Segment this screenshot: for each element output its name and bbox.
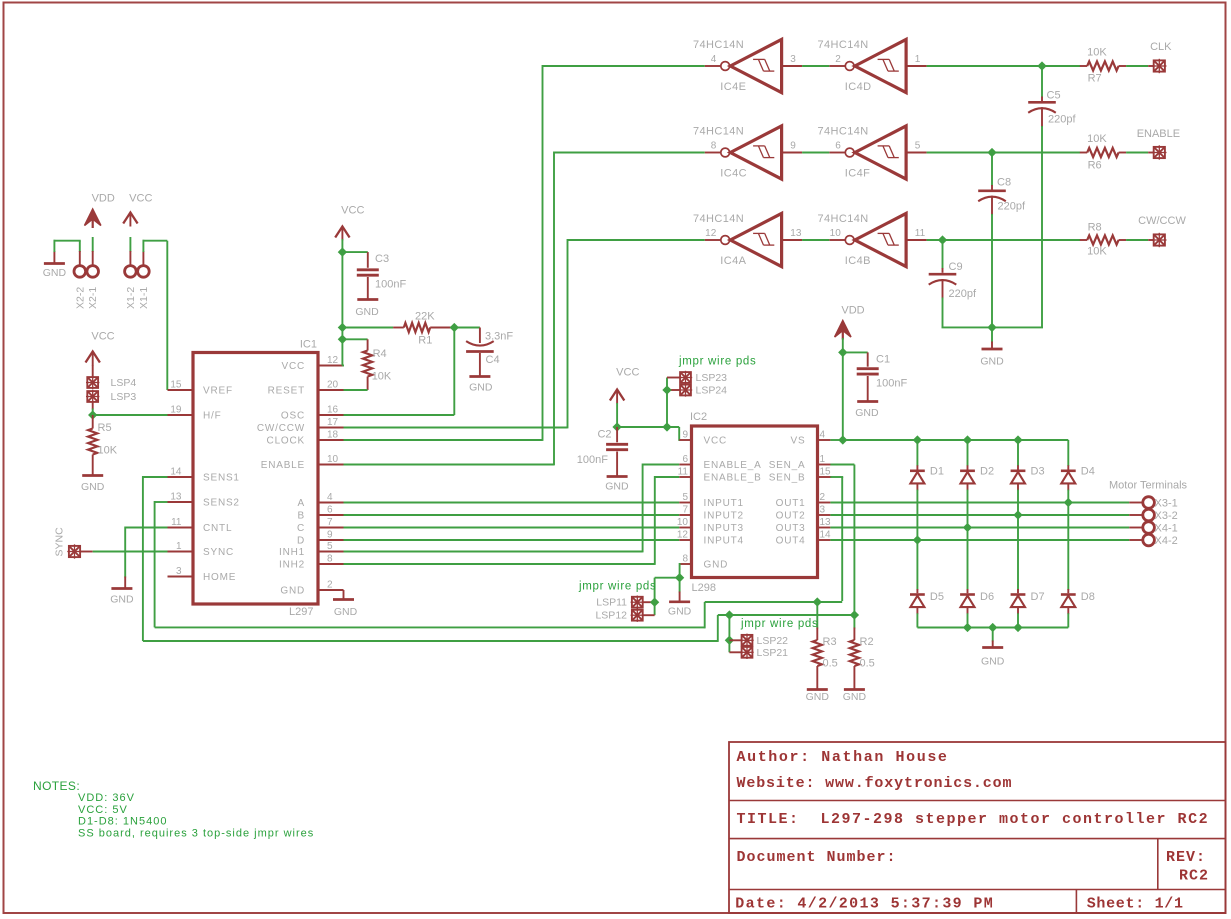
wire LSP22/21 branch (728, 615, 730, 652)
svg-text:Author: Nathan House: Author: Nathan House (737, 749, 949, 766)
svg-text:SYNC: SYNC (54, 527, 66, 557)
junction rail D6 (963, 623, 972, 632)
svg-text:C: C (297, 523, 305, 534)
terminal pad X4-1 (1143, 522, 1178, 535)
svg-text:19: 19 (170, 405, 182, 416)
inverter IC4F (74HC14N) (818, 126, 927, 180)
svg-text:16: 16 (327, 405, 339, 416)
terminal pad X4-2 (1143, 534, 1178, 547)
svg-text:3: 3 (176, 566, 182, 577)
svg-text:1: 1 (915, 54, 921, 65)
svg-text:10K: 10K (1087, 47, 1107, 59)
junction VS/D3 (1013, 435, 1022, 444)
inverter IC4B (74HC14N) (818, 213, 927, 267)
junction VCC/R1 (338, 323, 347, 332)
junction CWCCW/C9 (938, 235, 947, 244)
capacitor C8 (978, 153, 1026, 328)
IC2 left pin names (677, 430, 762, 571)
jumper pad LSP11 (596, 596, 644, 609)
svg-text:IC4F: IC4F (845, 168, 870, 180)
svg-text:12: 12 (677, 530, 689, 541)
ground symbol C4 (469, 377, 493, 394)
svg-text:3: 3 (820, 505, 826, 516)
junction SENS1/R2 (850, 610, 859, 619)
svg-text:CLK: CLK (1150, 41, 1172, 53)
svg-text:X3-1: X3-1 (1155, 498, 1178, 510)
wire OSC to R1 (344, 328, 455, 416)
svg-text:2: 2 (327, 580, 333, 591)
svg-text:4: 4 (820, 430, 826, 441)
svg-text:SENS1: SENS1 (203, 473, 240, 484)
svg-text:CW/CCW: CW/CCW (257, 423, 305, 434)
inverter IC4A (74HC14N) (693, 213, 802, 267)
diode D7 (1011, 515, 1045, 628)
wire IC4E-IC4D (802, 65, 829, 67)
svg-text:D5: D5 (930, 591, 944, 603)
resistor R7 (1080, 47, 1154, 85)
junction VCC/C3 (338, 247, 347, 256)
wire VCC to IC2 pin9 (617, 427, 691, 441)
resistor R6 (1080, 133, 1154, 172)
svg-text:R7: R7 (1088, 73, 1102, 85)
junction VS/D2 (963, 435, 972, 444)
svg-text:L298: L298 (692, 582, 716, 594)
connector pad X2-2 (74, 266, 87, 309)
svg-text:C2: C2 (597, 429, 611, 441)
svg-text:20: 20 (327, 380, 339, 391)
svg-text:RC2: RC2 (1179, 868, 1209, 885)
svg-text:INPUT4: INPUT4 (704, 536, 744, 547)
svg-text:6: 6 (682, 454, 688, 465)
diode D5 (910, 540, 944, 628)
svg-text:ENABLE: ENABLE (261, 460, 305, 471)
pad SYNC (54, 527, 93, 559)
svg-text:220pf: 220pf (998, 201, 1026, 213)
svg-text:VREF: VREF (203, 386, 233, 397)
svg-text:SENS2: SENS2 (203, 498, 240, 509)
junction ENABLE/C8 (987, 148, 996, 157)
svg-text:R1: R1 (418, 335, 432, 347)
svg-text:LSP22: LSP22 (757, 635, 789, 647)
svg-text:REV:: REV: (1166, 849, 1206, 866)
wire OUT line X3-1 (830, 502, 1143, 504)
wire VS pin stub (818, 439, 844, 441)
wire CNTL to GND (125, 527, 168, 589)
resistor R2 (850, 615, 875, 689)
svg-text:HOME: HOME (203, 572, 236, 583)
terminal pad X3-2 (1143, 509, 1178, 522)
op-amp IC2 box (L298) (692, 426, 818, 578)
svg-text:Date: 4/2/2013 5:37:39 PM: Date: 4/2/2013 5:37:39 PM (735, 896, 994, 913)
diode D4 (1061, 440, 1095, 503)
junction SENS2/R3 (813, 597, 822, 606)
ground symbol IC2 (668, 578, 692, 618)
svg-text:10K: 10K (1087, 133, 1107, 145)
svg-text:VCC: VCC (341, 205, 364, 217)
svg-text:VS: VS (791, 436, 806, 447)
op-amp IC1 box (L297) (193, 353, 318, 605)
svg-text:TITLE: L297-298 stepper motor: TITLE: L297-298 stepper motor controller… (737, 811, 1210, 828)
svg-text:74HC14N: 74HC14N (693, 39, 744, 51)
svg-text:GND: GND (110, 594, 134, 606)
wire VDD to VS (842, 352, 844, 440)
svg-text:C8: C8 (997, 177, 1011, 189)
svg-text:8: 8 (327, 554, 333, 565)
junction rail D7 (1013, 623, 1022, 632)
junction CLK/C5 (1037, 61, 1046, 70)
svg-text:11: 11 (678, 467, 689, 478)
power symbol VDD (IC2) (835, 305, 865, 354)
wire ENABLE net (344, 152, 705, 466)
svg-text:9: 9 (682, 430, 688, 441)
svg-text:R2: R2 (860, 636, 874, 648)
title block box (729, 742, 1226, 913)
power symbol VCC (IC1) (335, 205, 364, 254)
resistor R4 (342, 339, 392, 390)
svg-text:14: 14 (820, 530, 832, 541)
svg-text:R6: R6 (1088, 160, 1102, 172)
svg-text:Document Number:: Document Number: (737, 849, 897, 866)
svg-text:VCC: VCC (91, 331, 114, 343)
junction D1 to motor line (913, 535, 922, 544)
svg-text:7: 7 (327, 517, 333, 528)
ground symbol R5 (81, 476, 105, 494)
svg-text:CNTL: CNTL (203, 523, 232, 534)
svg-text:GND: GND (855, 407, 879, 419)
svg-text:OUT2: OUT2 (776, 511, 806, 522)
svg-text:9: 9 (327, 530, 333, 541)
jumper pad LSP22 (740, 634, 788, 647)
diode D2 (960, 440, 994, 528)
svg-text:L297: L297 (289, 606, 313, 618)
svg-text:GND: GND (981, 656, 1005, 668)
wire diode ground rail (917, 627, 1068, 629)
wire D to INPUT4 (344, 539, 680, 541)
svg-text:6: 6 (835, 141, 841, 152)
label jmpr wire pds (LSP23/24) (678, 356, 756, 368)
pad CLK (1150, 41, 1172, 73)
svg-text:IC2: IC2 (690, 411, 707, 423)
wire B to INPUT2 (344, 514, 680, 516)
wire X2-2 to GND (54, 240, 81, 265)
resistor R1 (342, 311, 455, 347)
IC1 left pins (168, 380, 240, 584)
capacitor C1 (843, 352, 908, 401)
svg-text:C5: C5 (1047, 90, 1061, 102)
wire to LSP11/12 (643, 578, 680, 616)
svg-text:OUT4: OUT4 (776, 536, 806, 547)
svg-text:7: 7 (682, 505, 688, 516)
svg-text:2: 2 (835, 54, 841, 65)
wire IC4C-IC4F (802, 152, 829, 154)
svg-text:IC4E: IC4E (720, 81, 746, 93)
svg-text:4: 4 (327, 492, 333, 503)
svg-text:VDD: VDD (92, 193, 115, 205)
svg-text:VCC: 5V: VCC: 5V (78, 804, 128, 816)
inverter IC4C (74HC14N) (693, 126, 802, 180)
ground symbol R3 (806, 690, 830, 704)
label jmpr wire pds (LSP22/21) (740, 618, 818, 630)
svg-text:IC4D: IC4D (845, 81, 872, 93)
jumper pad LSP24 (679, 383, 727, 396)
junction rail GND stem (988, 623, 997, 632)
diode D3 (1011, 440, 1045, 515)
jumper pad LSP23 (679, 371, 727, 384)
wire cap ground rail (942, 326, 1044, 328)
svg-text:INPUT3: INPUT3 (704, 523, 744, 534)
inverter IC4E (74HC14N) (693, 39, 802, 93)
svg-text:B: B (298, 511, 305, 522)
diode D6 (960, 528, 994, 628)
svg-text:10K: 10K (98, 445, 118, 457)
wire OUT line X3-2 (830, 514, 1143, 516)
svg-text:18: 18 (327, 430, 339, 441)
pad CW/CCW (1138, 215, 1186, 247)
ground symbol diode rail (981, 628, 1005, 668)
svg-text:LSP11: LSP11 (596, 597, 627, 609)
svg-text:OUT1: OUT1 (776, 498, 806, 509)
wire ENABLE row out (927, 152, 1081, 154)
svg-text:IC4C: IC4C (720, 168, 747, 180)
junction VCC/R4 (338, 335, 347, 344)
svg-text:74HC14N: 74HC14N (693, 126, 744, 138)
node H/F junction (88, 410, 97, 419)
svg-text:74HC14N: 74HC14N (693, 213, 744, 225)
svg-text:OUT3: OUT3 (776, 523, 806, 534)
svg-text:10: 10 (830, 228, 842, 239)
svg-text:1: 1 (820, 454, 826, 465)
capacitor C3 (342, 252, 406, 299)
connector pad X2-1 (87, 266, 99, 309)
resistor R8 (1080, 222, 1154, 258)
wire LSP3 to H/F node (92, 402, 94, 415)
svg-text:100nF: 100nF (876, 378, 907, 390)
connector pad X1-2 (125, 266, 137, 309)
svg-text:74HC14N: 74HC14N (818, 213, 869, 225)
jumper pad LSP12 (595, 609, 644, 622)
wire CLK row out (927, 65, 1081, 67)
svg-text:LSP23: LSP23 (696, 372, 728, 384)
svg-text:R8: R8 (1088, 222, 1102, 234)
svg-text:13: 13 (170, 492, 182, 503)
svg-text:C9: C9 (949, 261, 963, 273)
terminal pad X3-1 (1143, 497, 1178, 510)
power symbol VCC (IC2) (610, 367, 640, 429)
svg-text:D2: D2 (980, 465, 994, 477)
diode D1 (910, 440, 944, 540)
IC1 right pins (257, 355, 344, 597)
svg-text:LSP21: LSP21 (757, 647, 789, 659)
svg-text:1: 1 (176, 541, 182, 552)
svg-text:GND: GND (81, 481, 105, 493)
junction D4 to motor line (1064, 498, 1073, 507)
svg-text:ENABLE_B: ENABLE_B (704, 473, 762, 484)
notes text (33, 779, 314, 839)
svg-text:GND: GND (843, 691, 867, 703)
svg-text:R3: R3 (823, 636, 837, 648)
capacitor C2 (577, 427, 628, 476)
ground symbol cap rail (980, 327, 1004, 367)
svg-text:GND: GND (806, 691, 830, 703)
svg-text:13: 13 (790, 228, 802, 239)
junction SENS1/LSP22 (725, 610, 734, 619)
svg-text:INH1: INH1 (279, 547, 305, 558)
svg-text:OSC: OSC (281, 411, 305, 422)
svg-text:X3-2: X3-2 (1155, 510, 1178, 522)
wire CW/CCW net (344, 239, 705, 428)
capacitor C4 (454, 328, 513, 376)
svg-text:8: 8 (711, 141, 717, 152)
svg-text:GND: GND (668, 606, 692, 618)
junction LSP11 (650, 598, 659, 607)
svg-text:IC4B: IC4B (845, 255, 871, 267)
svg-text:D3: D3 (1031, 465, 1045, 477)
svg-text:X4-2: X4-2 (1155, 535, 1178, 547)
wire C to INPUT3 (344, 527, 680, 529)
svg-text:6: 6 (327, 505, 333, 516)
svg-text:GND: GND (355, 306, 379, 318)
svg-text:0.5: 0.5 (860, 658, 875, 670)
svg-text:LSP4: LSP4 (111, 377, 137, 389)
ground symbol C2 (605, 477, 629, 493)
svg-text:X2-1: X2-1 (87, 287, 99, 309)
capacitor C9 (929, 240, 977, 327)
wire SENS2 net (155, 501, 843, 628)
ground symbol CNTL (110, 589, 134, 606)
inverter IC4D (74HC14N) (818, 39, 927, 93)
wire CW/CCW row out (927, 239, 1081, 241)
svg-text:GND: GND (704, 560, 729, 571)
svg-text:GND: GND (605, 481, 629, 493)
svg-text:0.5: 0.5 (823, 658, 838, 670)
svg-text:12: 12 (327, 355, 339, 366)
wire VS rail (843, 439, 1069, 441)
wire SENS1 net (143, 476, 855, 642)
label IC1 (300, 339, 317, 351)
wire INH1 to ENABLE_A (344, 464, 680, 553)
svg-text:VCC: VCC (704, 436, 728, 447)
svg-text:220pf: 220pf (1048, 114, 1076, 126)
svg-text:D8: D8 (1081, 591, 1095, 603)
ground symbol R2 (843, 690, 867, 704)
svg-text:14: 14 (170, 467, 182, 478)
svg-text:ENABLE_A: ENABLE_A (704, 460, 762, 471)
svg-text:D6: D6 (980, 591, 994, 603)
svg-text:jmpr wire pds: jmpr wire pds (740, 618, 818, 630)
ground symbol C1 (855, 402, 879, 420)
wire OUT line X4-2 (830, 539, 1143, 541)
wire VCC rail (342, 252, 344, 365)
junction VDD/C1 (838, 348, 847, 357)
junction D2 to motor line (963, 523, 972, 532)
svg-text:GND: GND (43, 267, 67, 279)
junction VDD/VS (838, 435, 847, 444)
svg-text:15: 15 (170, 380, 182, 391)
svg-text:ENABLE: ENABLE (1137, 128, 1180, 140)
junction VS/D1 (913, 435, 922, 444)
pad ENABLE (1137, 128, 1180, 160)
svg-text:GND: GND (469, 382, 493, 394)
jumper pad LSP3 (86, 390, 136, 403)
svg-text:jmpr wire pds: jmpr wire pds (578, 581, 656, 593)
svg-text:5: 5 (682, 492, 688, 503)
svg-text:74HC14N: 74HC14N (818, 126, 869, 138)
power symbol VDD (X2-1) (85, 193, 115, 266)
svg-text:INH2: INH2 (279, 560, 305, 571)
svg-text:X2-2: X2-2 (75, 287, 87, 309)
svg-text:GND: GND (334, 606, 358, 618)
svg-text:3: 3 (790, 54, 796, 65)
svg-text:D7: D7 (1031, 591, 1045, 603)
label IC2 (690, 411, 707, 423)
wire X1-1 to VREF (143, 240, 168, 390)
svg-text:11: 11 (171, 517, 182, 528)
svg-text:22K: 22K (415, 311, 435, 323)
svg-text:VDD: 36V: VDD: 36V (78, 792, 135, 804)
label L297 (289, 606, 313, 618)
wire LSP23/24 branch (667, 378, 680, 428)
svg-text:10: 10 (327, 454, 339, 465)
svg-text:Sheet: 1/1: Sheet: 1/1 (1087, 896, 1184, 913)
svg-text:74HC14N: 74HC14N (818, 39, 869, 51)
wire OUT line X4-1 (830, 527, 1143, 529)
svg-text:10: 10 (677, 517, 689, 528)
resistor R3 (813, 602, 838, 689)
svg-text:CLOCK: CLOCK (267, 436, 305, 447)
svg-text:5: 5 (915, 141, 921, 152)
svg-text:C3: C3 (375, 253, 389, 265)
svg-text:CW/CCW: CW/CCW (1138, 215, 1186, 227)
jumper pad LSP4 (86, 376, 136, 389)
svg-text:5: 5 (327, 541, 333, 552)
svg-text:SS board, requires 3 top-side: SS board, requires 3 top-side jmpr wires (78, 827, 314, 839)
svg-text:4: 4 (711, 54, 717, 65)
junction LSP24 (662, 385, 671, 394)
svg-text:13: 13 (820, 517, 832, 528)
jumper pad LSP21 (740, 646, 788, 659)
svg-text:H/F: H/F (203, 411, 222, 422)
svg-text:RESET: RESET (268, 386, 305, 397)
svg-text:C4: C4 (486, 354, 500, 366)
wire INH2 to ENABLE_B (344, 476, 680, 565)
svg-text:A: A (298, 498, 305, 509)
svg-text:SYNC: SYNC (203, 547, 234, 558)
wire H/F (93, 414, 169, 416)
svg-text:12: 12 (705, 228, 717, 239)
svg-text:15: 15 (820, 467, 832, 478)
svg-text:100nF: 100nF (577, 454, 608, 466)
power symbol VCC (X1-2) (123, 193, 152, 266)
svg-text:LSP24: LSP24 (696, 385, 728, 397)
svg-text:10K: 10K (1087, 246, 1107, 258)
svg-text:LSP12: LSP12 (595, 610, 627, 622)
junction R1/C4 (450, 323, 459, 332)
wire pads LSP22/21 stubs (729, 640, 741, 652)
svg-text:100nF: 100nF (375, 279, 406, 291)
svg-text:2: 2 (820, 492, 826, 503)
junction LSP22 (725, 636, 734, 645)
junction VCC/LSP24 (662, 422, 671, 431)
svg-text:9: 9 (790, 141, 796, 152)
IC2 right pin names (769, 430, 831, 547)
wire CLOCK net (344, 65, 705, 441)
svg-text:NOTES:: NOTES: (33, 779, 80, 793)
ground symbol IC1 pin2 (333, 590, 358, 618)
svg-text:SEN_A: SEN_A (769, 460, 806, 471)
wire SEN_B drop (818, 477, 844, 601)
svg-text:VCC: VCC (281, 361, 305, 372)
title block text (735, 749, 1209, 913)
